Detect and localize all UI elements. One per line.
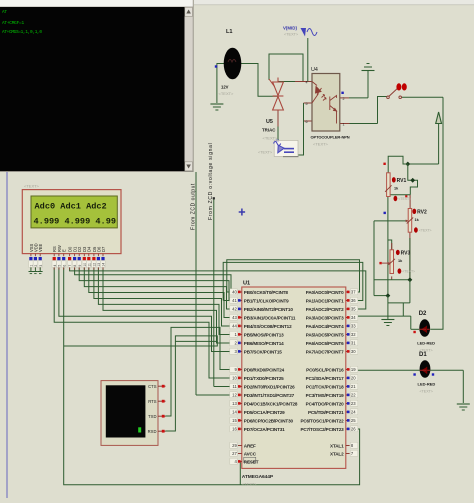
svg-text:PD0/RXD0/PCINT24: PD0/RXD0/PCINT24 [244,368,285,373]
wire D1 right [430,369,463,371]
node D2 state [413,331,415,333]
node RV2 top state [405,195,407,197]
wire dot2 down [409,280,411,303]
LED D2 [419,319,430,337]
svg-text:32: 32 [351,332,356,337]
junction jog RV2 [410,178,415,183]
wire RV1 wiper right [390,194,410,196]
pin 35 PA2/ADC2/PCINT2 [346,308,350,310]
wire TRIAC MT2 down [277,111,279,128]
svg-text:11: 11 [232,384,237,389]
svg-text:<TEXT>: <TEXT> [419,229,432,233]
svg-text:PC1/SDA/PCINT17: PC1/SDA/PCINT17 [306,376,344,381]
svg-text:4: 4 [306,81,308,85]
wire branch to RV3 top [388,240,392,250]
svg-text:D2: D2 [419,311,427,317]
node RV1 bottom state [384,212,386,214]
svg-text:33: 33 [351,324,356,329]
wire U4 pin1 stub [340,123,350,125]
wire over-chip A [227,260,360,292]
node U4 pin2 state [341,92,343,94]
svg-text:10: 10 [232,376,237,381]
svg-text:PC3/TMS/PCINT19: PC3/TMS/PCINT19 [306,393,344,398]
svg-text:15: 15 [232,418,237,423]
svg-text:5: 5 [58,265,62,267]
svg-text:44: 44 [232,324,237,329]
switch SW1 [387,96,390,99]
svg-text:<TEXT>: <TEXT> [242,482,258,487]
power marker [30,267,32,271]
wire down to D2 [410,316,412,329]
wire RV3 top pin [391,243,393,250]
node D1 right state [432,373,434,375]
pin 19 PC0/SCL/PCINT16 [346,369,350,371]
LED D1 [420,360,431,378]
junction pot mid [385,293,390,298]
svg-text:12V: 12V [221,85,229,90]
wire RV3 bottom pin [391,276,393,279]
svg-text:AT: AT [2,10,7,15]
triac U5 [269,78,283,111]
svg-text:26: 26 [351,427,356,432]
wire LCD RW to MCU [59,268,230,352]
wire U4 pin2 stub [340,97,349,99]
wire RV2 bottom down [409,232,411,280]
wire terminal RXD rail [64,336,218,431]
svg-text:27: 27 [232,451,237,456]
pin 32 PA5/ADC5/PCINT5 [346,334,350,336]
ground under L1 [210,103,223,105]
svg-text:14: 14 [102,263,106,267]
wire generator down [307,38,309,77]
wire LCD D4 to MCU [89,268,230,318]
svg-text:PC6/TOSC1/PCINT22: PC6/TOSC1/PCINT22 [300,419,344,424]
power marker [39,267,41,271]
wire ZCD2 down to PD2 [213,199,215,387]
terminal cursor [138,427,141,432]
svg-text:PC5/TDI/PCINT21: PC5/TDI/PCINT21 [308,410,344,415]
wire U4 pin2 to ground [349,97,368,99]
svg-text:From ZCD output: From ZCD output [191,183,197,230]
svg-text:RTS: RTS [148,399,157,404]
pin 22 PC3/TMS/PCINT19 [346,394,350,396]
virtual terminal window [0,0,194,172]
svg-text:<TEXT>: <TEXT> [313,142,329,147]
svg-text:2: 2 [34,265,38,267]
wire LCD D5 to MCU [94,268,230,327]
svg-text:13: 13 [232,401,237,406]
wire D1 to ground [462,370,464,403]
svg-text:XTAL1: XTAL1 [330,444,344,449]
svg-text:PB7/SCK/PCINT15: PB7/SCK/PCINT15 [244,350,282,355]
svg-text:16: 16 [232,427,237,432]
wire x374 down [373,221,375,296]
svg-text:20: 20 [351,376,356,381]
pin 31 PA6/ADC6/PCINT6 [346,342,350,344]
pin 44 PB4/SS/OC0B/PCINT12 [238,325,242,327]
svg-text:V(MID): V(MID) [283,26,297,31]
wire jog to RV1 top [388,156,408,173]
svg-text:AT+CMGF=1: AT+CMGF=1 [2,21,24,26]
pin 9 PD0/RXD0/PCINT24 [238,369,242,371]
pin 13 PD4/OC1B/XCK1/PCINT28 [238,403,242,405]
node ZCD2 origin [213,197,215,199]
pin 27 AVCC [238,453,242,455]
svg-text:From ZCD o:voltage signal: From ZCD o:voltage signal [208,143,214,220]
svg-text:TXD: TXD [148,414,156,419]
pin 20 PC1/SDA/PCINT17 [346,377,350,379]
pin 40 PB0/XCK0/T0/PCINT8 [238,291,242,293]
potentiometer RV1 [387,173,391,197]
wire LCD D6 to MCU [98,268,229,335]
wire to switch left contact [378,97,387,124]
node L1 pin state [215,65,217,67]
svg-text:PB1/T1/CLKO/PCINT9: PB1/T1/CLKO/PCINT9 [244,299,289,304]
svg-text:PD4/OC1B/XCK1/PCINT28: PD4/OC1B/XCK1/PCINT28 [244,402,298,407]
potentiometer RV2 [408,209,412,233]
svg-text:PC0/SCL/PCINT16: PC0/SCL/PCINT16 [306,368,344,373]
pin 4 RESET [238,461,242,463]
wire generator to pin4 node [307,77,309,82]
wire LCD D2 to MCU [79,268,229,301]
svg-text:PB2/AIN0/INT2/PCINT10: PB2/AIN0/INT2/PCINT10 [244,307,294,312]
svg-text:XTAL2: XTAL2 [330,452,344,457]
wire chip to D1 [357,369,420,371]
wire arrow terminal down [438,122,440,164]
svg-text:U1: U1 [243,281,250,287]
wire L1 left [217,63,225,65]
pin 41 PB1/T1/CLKO/PCINT9 [238,300,242,302]
svg-text:2: 2 [343,97,345,101]
pin 30 PA7/ADC7/PCINT7 [346,351,350,353]
ground top right [367,63,370,65]
junction RV rail [405,162,410,167]
node RV1 top state [383,163,385,165]
svg-text:PB5/MOSI/PCINT13: PB5/MOSI/PCINT13 [244,333,284,338]
optocoupler U4 [312,74,340,132]
svg-text:42: 42 [232,307,237,312]
svg-text:21: 21 [351,384,356,389]
wire to ground mid [387,296,389,319]
svg-text:43: 43 [232,315,237,320]
AC source terminal 12V [274,140,298,156]
svg-text:11: 11 [87,263,91,267]
ground mid pots [381,319,394,321]
wire LCD RS to MCU [54,268,229,379]
pin 24 PC5/TDI/PCINT21 [346,411,350,413]
wire to dot 295 [374,295,388,297]
voltage generator V(MID) [301,28,318,37]
svg-text:25: 25 [351,418,356,423]
potentiometer RV3 [390,250,394,274]
svg-text:<TEXT>: <TEXT> [284,33,299,37]
wire RV2 bottom down green [409,238,411,280]
wire U4 pin5 stub [304,102,312,104]
svg-text:PB0/XCK0/T0/PCINT8: PB0/XCK0/T0/PCINT8 [244,290,289,295]
svg-text:5: 5 [306,102,308,106]
wire U4 pin6 stub [304,120,312,122]
pin 11 PD2/INT0/RXD1/PCINT26 [238,386,242,388]
wire jog to RV2 top [408,164,418,195]
origin marker [239,209,245,216]
svg-text:37: 37 [351,290,356,295]
svg-text:PD3/INT1/TXD1/PCINT27: PD3/INT1/TXD1/PCINT27 [244,393,295,398]
pin 33 PA4/ADC4/PCINT4 [346,325,350,327]
wire RV2 wiper left [374,220,408,222]
wire RV2 top pin [409,195,411,209]
svg-text:AVCC: AVCC [244,452,257,457]
pin 3 PB7/SCK/PCINT15 [238,351,242,353]
wire TRIAC gate loop [269,54,303,82]
svg-text:23: 23 [351,401,356,406]
wire RXD into PB6 [217,341,229,343]
pin 21 PC2/TCK/PCINT18 [346,386,350,388]
pin 10 PD1/TXD0/PCINT25 [238,377,242,379]
svg-text:PD7/OC2A/PCINT31: PD7/OC2A/PCINT31 [244,427,285,432]
wire TRIAC to AC source [277,127,279,141]
svg-text:PD5/OC1A/PCINT29: PD5/OC1A/PCINT29 [244,410,285,415]
svg-text:D1: D1 [419,352,427,358]
svg-text:PA6/ADC6/PCINT6: PA6/ADC6/PCINT6 [306,341,344,346]
svg-text:VEE: VEE [38,244,43,252]
svg-text:RESET: RESET [244,460,259,465]
svg-text:13: 13 [97,263,101,267]
pin 14 PD5/OC1A/PCINT29 [238,411,242,413]
wire LCD D3 to MCU [84,268,229,310]
svg-text:PA2/ADC2/PCINT2: PA2/ADC2/PCINT2 [306,307,344,312]
wire over-chip B [223,262,363,300]
svg-text:PD2/INT0/RXD1/PCINT26: PD2/INT0/RXD1/PCINT26 [244,385,295,390]
wire ZCD1 down to PD3 [195,172,197,395]
pin 29 AREF [238,445,242,447]
wire right rail down to D2 [430,97,443,329]
wire pin34 row [357,315,411,317]
svg-text:LED-RED: LED-RED [418,382,436,387]
svg-text:ATMEGA644P: ATMEGA644P [242,474,274,480]
svg-text:24: 24 [351,410,356,415]
svg-text:31: 31 [351,341,356,346]
svg-text:4: 4 [53,265,57,267]
pin 12 PD3/INT1/TXD1/PCINT27 [238,394,242,396]
wire TRIAC top to U4 pin4 [278,81,312,83]
terminal arrow up [436,112,442,124]
pin 1 PB5/MOSI/PCINT13 [238,334,242,336]
pin 25 PC6/TOSC1/PCINT22 [346,420,350,422]
svg-text:41: 41 [232,298,237,303]
svg-text:40: 40 [232,290,237,295]
svg-text:1: 1 [30,265,34,267]
svg-text:36: 36 [351,298,356,303]
ground bottom right [457,403,470,405]
svg-text:34: 34 [351,315,356,320]
node RV3 wiper state [379,262,381,264]
svg-text:3: 3 [39,265,43,267]
svg-text:29: 29 [232,443,237,448]
wire RV3 wiper stub [382,262,390,264]
svg-text:RV1: RV1 [397,178,407,184]
microcontroller U1 ATMEGA644P [242,287,346,468]
svg-text:8: 8 [73,265,77,267]
pin 37 PA0/ADC0/PCINT0 [346,291,350,293]
virtual terminal [101,381,158,446]
svg-text:PB4/SS/OC0B/PCINT12: PB4/SS/OC0B/PCINT12 [244,324,292,329]
svg-text:12: 12 [232,393,237,398]
svg-text:E: E [62,249,67,252]
pin 42 PB2/AIN0/INT2/PCINT10 [238,308,242,310]
svg-text:1: 1 [343,123,345,127]
svg-text:<TEXT>: <TEXT> [420,390,433,394]
wire LCD D7 to MCU [103,268,230,344]
svg-text:RV2: RV2 [417,210,427,216]
pin 34 PA3/ADC3/PCINT3 [346,317,350,319]
svg-text:19: 19 [351,367,356,372]
wire U4 pin1 right [350,123,378,125]
pin 36 PA1/ADC1/PCINT1 [346,300,350,302]
sheet border [6,170,8,498]
wire ground TR stem [367,71,369,98]
svg-text:U5: U5 [266,119,273,125]
wire branch to RESET [238,462,240,485]
svg-text:10: 10 [83,263,87,267]
svg-text:35: 35 [351,307,356,312]
svg-text:PA0/ADC0/PCINT0: PA0/ADC0/PCINT0 [306,290,344,295]
wire B into pin41 [223,300,229,302]
wire RV3 bottom rail [374,279,410,281]
svg-text:PC2/TCK/PCINT18: PC2/TCK/PCINT18 [306,385,344,390]
svg-text:<TEXT>: <TEXT> [398,197,411,201]
pin 43 PB3/AIN1/OC0A/PCINT11 [238,317,242,319]
svg-text:PB3/AIN1/OC0A/PCINT11: PB3/AIN1/OC0A/PCINT11 [244,316,296,321]
svg-text:Adc0 Adc1 Adc2: Adc0 Adc1 Adc2 [35,202,107,212]
svg-text:PC7/TOSC2/PCINT23: PC7/TOSC2/PCINT23 [300,427,344,432]
svg-text:PD6/ICP/OC2B/PCINT30: PD6/ICP/OC2B/PCINT30 [244,419,294,424]
pin 23 PC4/TDO/PCINT20 [346,403,350,405]
svg-text:4.999 4.999 4.99: 4.999 4.999 4.99 [34,217,117,227]
svg-text:<TEXT>: <TEXT> [219,91,235,96]
wire rung 341 [175,340,217,342]
svg-text:U4: U4 [311,67,318,73]
svg-text:RV3: RV3 [401,251,411,257]
wire LCD E bottom rail to PC7 [64,268,360,485]
wire RV1 bottom down [387,197,389,296]
svg-text:14: 14 [232,410,237,415]
svg-text:RXD: RXD [148,429,157,434]
RV2 wiper arrow [406,220,409,223]
svg-text:PA5/ADC5/PCINT5: PA5/ADC5/PCINT5 [306,333,344,338]
pin 2 PB6/MISO/PCINT14 [238,342,242,344]
svg-text:6: 6 [306,120,308,124]
wire rail to RV junction [407,163,439,165]
wire L1 to ground [216,64,218,104]
pin 26 PC7/TOSC2/PCINT23 [346,428,350,430]
wire ZCD2 into pin11 [214,386,230,388]
svg-text:LED-RED: LED-RED [417,341,435,346]
svg-text:12: 12 [276,139,280,143]
svg-text:<TEXT>: <TEXT> [402,270,415,274]
svg-text:PA3/ADC3/PCINT3: PA3/ADC3/PCINT3 [306,316,344,321]
wire D0 to PA2 [70,268,366,310]
pin 16 PD7/OC2A/PCINT31 [238,428,242,430]
pin 7 XTAL2 [346,453,350,455]
wire A into pin40 [227,291,230,293]
wire U4 pin5 to AC terminal [286,103,304,155]
wire jog 403 [402,303,404,316]
power marker [34,267,36,271]
svg-text:6: 6 [62,265,66,267]
pin 8 XTAL1 [346,445,350,447]
wire switch to right rail [402,96,444,98]
svg-text:PD1/TXD0/PCINT25: PD1/TXD0/PCINT25 [244,376,284,381]
inductor L1 [224,48,242,80]
pin 15 PD6/ICP/OC2B/PCINT30 [238,420,242,422]
svg-text:PA4/ADC4/PCINT4: PA4/ADC4/PCINT4 [306,324,344,329]
svg-text:22: 22 [351,393,356,398]
wire ZCD1 into pin12 [196,394,230,396]
svg-text:D7: D7 [101,246,106,252]
svg-text:OPTOCOUPLER-NPN: OPTOCOUPLER-NPN [311,135,350,140]
svg-text:7: 7 [68,265,72,267]
wire terminal TXD to PD0 [166,327,230,416]
wire L1 to TRIAC MT [241,64,278,97]
wire rail 302 [388,302,410,304]
svg-text:PA7/ADC7/PCINT7: PA7/ADC7/PCINT7 [306,350,344,355]
svg-text:<TEXT>: <TEXT> [24,184,40,189]
wire U4 pin4 stub [295,81,312,83]
junction RV3 rail [407,277,412,282]
node D1 left state [413,373,415,375]
svg-text:PA1/ADC1/PCINT1: PA1/ADC1/PCINT1 [306,299,344,304]
svg-text:12: 12 [93,263,97,267]
svg-text:AREF: AREF [244,444,256,449]
svg-text:L1: L1 [226,29,233,35]
svg-text:PC4/TDO/PCINT20: PC4/TDO/PCINT20 [306,402,344,407]
svg-text:9: 9 [78,265,82,267]
svg-text:30: 30 [351,349,356,354]
svg-text:AT+CMGS=1,1,0,1,0: AT+CMGS=1,1,0,1,0 [2,30,42,35]
svg-text:TRIAC: TRIAC [262,128,276,133]
svg-text:<TEXT>: <TEXT> [258,151,273,155]
wire LCD D1 to MCU [75,268,231,293]
wire into D2 [411,328,419,330]
svg-text:CTS: CTS [148,384,157,389]
svg-text:PB6/MISO/PCINT14: PB6/MISO/PCINT14 [244,341,284,346]
